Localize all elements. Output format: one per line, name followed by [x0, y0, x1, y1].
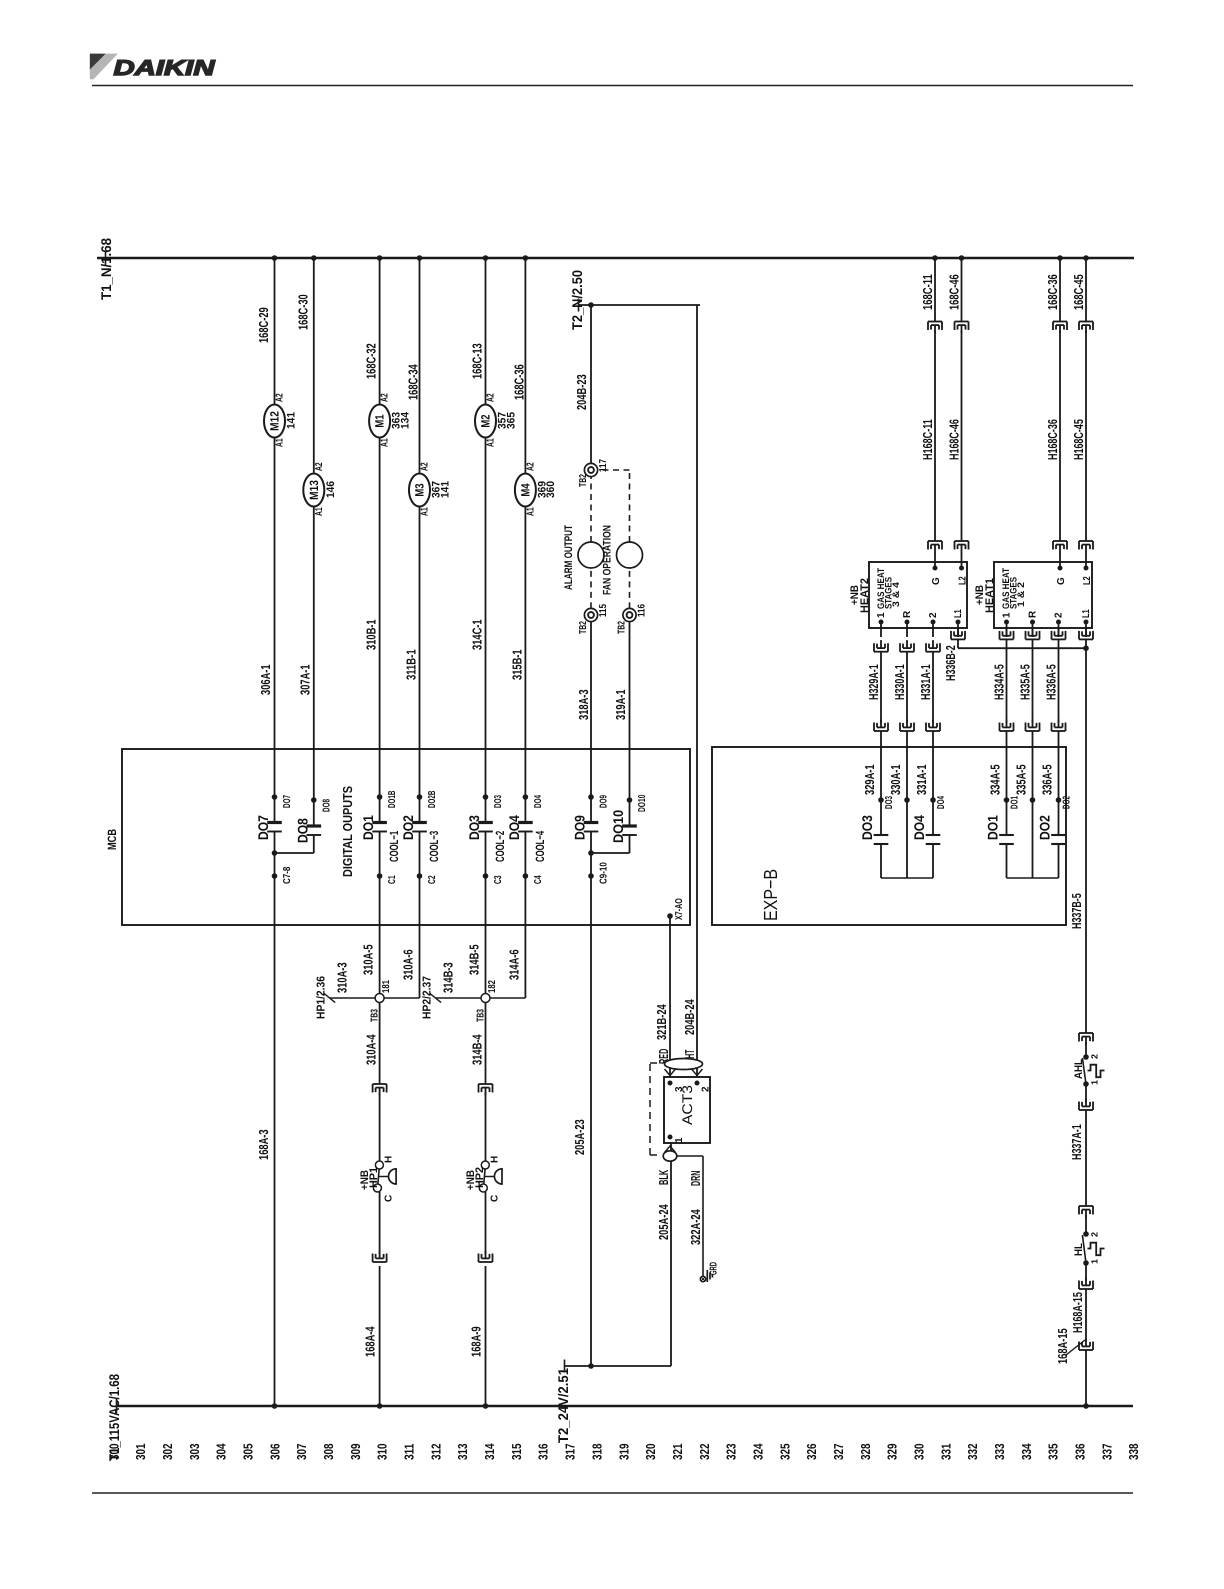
svg-text:L1: L1: [953, 609, 964, 618]
svg-text:310: 310: [375, 1444, 390, 1461]
svg-text:305: 305: [241, 1444, 256, 1461]
svg-text:DO7: DO7: [282, 795, 293, 808]
svg-text:310A-3: 310A-3: [335, 962, 350, 993]
svg-text:300: 300: [106, 1444, 121, 1461]
svg-text:330A-1: 330A-1: [888, 764, 903, 795]
svg-text:HP1/2.36: HP1/2.36: [316, 976, 328, 1019]
svg-text:334A-5: 334A-5: [988, 764, 1003, 795]
svg-text:DO10: DO10: [637, 794, 648, 812]
svg-text:DO10: DO10: [610, 810, 626, 843]
svg-text:G: G: [1056, 577, 1067, 585]
svg-text:M4: M4: [518, 483, 532, 496]
svg-text:M1: M1: [373, 414, 387, 427]
svg-text:A2: A2: [275, 393, 286, 402]
svg-text:DO8: DO8: [294, 818, 310, 843]
svg-text:168A-15: 168A-15: [1055, 1328, 1070, 1364]
svg-text:1: 1: [1002, 612, 1013, 618]
svg-text:314A-6: 314A-6: [506, 949, 521, 980]
svg-text:337: 337: [1099, 1444, 1114, 1461]
svg-text:H330A-1: H330A-1: [892, 664, 907, 700]
svg-text:C: C: [490, 1195, 501, 1202]
svg-text:DO2: DO2: [1037, 815, 1053, 840]
svg-text:M13: M13: [307, 480, 321, 500]
svg-text:309: 309: [348, 1444, 363, 1461]
svg-text:T2_N/2.50: T2_N/2.50: [569, 270, 585, 330]
svg-text:320: 320: [643, 1444, 658, 1461]
svg-text:A2: A2: [314, 462, 325, 471]
svg-text:336: 336: [1073, 1444, 1088, 1461]
svg-text:365: 365: [505, 412, 517, 429]
svg-text:G: G: [931, 577, 942, 585]
svg-text:168C-46: 168C-46: [947, 274, 962, 310]
svg-text:310B-1: 310B-1: [364, 619, 379, 650]
svg-text:C7-8: C7-8: [282, 866, 293, 884]
svg-text:X7-AO: X7-AO: [674, 898, 685, 920]
svg-text:DIGITAL OUPUTS: DIGITAL OUPUTS: [340, 786, 355, 877]
svg-text:DO1: DO1: [1010, 796, 1021, 809]
svg-text:H335A-5: H335A-5: [1018, 664, 1033, 700]
svg-text:324: 324: [750, 1443, 765, 1460]
svg-text:A2: A2: [380, 393, 391, 402]
svg-text:COOL−1: COOL−1: [387, 831, 401, 862]
svg-text:334: 334: [1019, 1443, 1034, 1460]
svg-text:DO3: DO3: [493, 795, 504, 808]
svg-text:M12: M12: [268, 411, 282, 431]
svg-text:DO8: DO8: [321, 799, 332, 812]
svg-text:H329A-1: H329A-1: [866, 664, 881, 700]
svg-text:HEAT1: HEAT1: [984, 578, 996, 613]
svg-text:H336A-5: H336A-5: [1044, 664, 1059, 700]
svg-text:TB3: TB3: [370, 1009, 381, 1022]
svg-text:DO9: DO9: [599, 795, 610, 808]
svg-text:321B-24: 321B-24: [654, 1004, 669, 1040]
svg-text:H168C-46: H168C-46: [947, 419, 962, 460]
svg-text:1: 1: [876, 612, 887, 618]
svg-text:DO3: DO3: [466, 815, 482, 840]
svg-text:DO3: DO3: [859, 815, 875, 840]
svg-text:360: 360: [545, 481, 557, 498]
svg-text:H168C-11: H168C-11: [920, 419, 935, 460]
svg-text:TB2: TB2: [617, 621, 628, 634]
svg-text:303: 303: [187, 1444, 202, 1461]
svg-text:DO1: DO1: [360, 815, 376, 840]
svg-text:R: R: [1028, 610, 1039, 618]
svg-text:H334A-5: H334A-5: [992, 664, 1007, 700]
svg-text:311: 311: [402, 1444, 417, 1461]
svg-text:326: 326: [804, 1444, 819, 1461]
svg-text:181: 181: [381, 980, 392, 993]
svg-text:168A-3: 168A-3: [256, 1129, 271, 1160]
svg-text:306: 306: [267, 1444, 282, 1461]
svg-text:L2: L2: [958, 576, 969, 585]
svg-text:322: 322: [697, 1444, 712, 1461]
svg-text:313: 313: [455, 1444, 470, 1461]
svg-text:M3: M3: [413, 483, 427, 496]
svg-text:ALARM OUTPUT: ALARM OUTPUT: [563, 525, 575, 590]
svg-text:2: 2: [1090, 1232, 1100, 1237]
svg-text:H168A-15: H168A-15: [1070, 1292, 1085, 1333]
svg-text:330: 330: [912, 1444, 927, 1461]
svg-text:335A-5: 335A-5: [1014, 764, 1029, 795]
svg-text:A1: A1: [486, 438, 497, 447]
svg-text:182: 182: [487, 980, 498, 993]
svg-text:DO4: DO4: [936, 796, 947, 809]
svg-text:328: 328: [858, 1444, 873, 1461]
svg-text:168C-29: 168C-29: [256, 307, 271, 343]
svg-text:DO1: DO1: [985, 815, 1001, 840]
svg-text:COOL−4: COOL−4: [533, 831, 547, 862]
svg-text:304: 304: [214, 1443, 229, 1460]
svg-text:C2: C2: [427, 875, 438, 884]
svg-text:333: 333: [992, 1444, 1007, 1461]
svg-text:AHL: AHL: [1073, 1059, 1085, 1079]
svg-text:DO1B: DO1B: [387, 791, 398, 808]
svg-text:331: 331: [938, 1444, 953, 1461]
svg-text:DO4: DO4: [533, 795, 544, 808]
svg-text:H336B-2: H336B-2: [943, 645, 958, 681]
svg-text:317: 317: [563, 1444, 578, 1461]
svg-text:TB2: TB2: [578, 621, 589, 634]
svg-text:168C-13: 168C-13: [470, 343, 485, 379]
svg-text:314B-5: 314B-5: [467, 944, 482, 975]
svg-text:329: 329: [885, 1444, 900, 1461]
svg-text:338: 338: [1126, 1444, 1141, 1461]
svg-text:H168C-36: H168C-36: [1045, 419, 1060, 460]
svg-text:322A-24: 322A-24: [688, 1209, 703, 1245]
svg-text:306A-1: 306A-1: [258, 664, 273, 695]
svg-text:310A-6: 310A-6: [401, 949, 416, 980]
svg-text:315: 315: [509, 1444, 524, 1461]
svg-text:323: 323: [724, 1444, 739, 1461]
svg-text:3: 3: [674, 1086, 685, 1092]
svg-text:DO2B: DO2B: [427, 791, 438, 808]
svg-text:318: 318: [589, 1444, 604, 1461]
svg-text:A2: A2: [486, 393, 497, 402]
svg-text:168C-45: 168C-45: [1071, 274, 1086, 310]
svg-text:168A-9: 168A-9: [469, 1326, 484, 1357]
svg-text:1: 1: [1090, 1080, 1100, 1085]
svg-text:315B-1: 315B-1: [509, 649, 524, 680]
svg-text:DAIKIN: DAIKIN: [114, 56, 216, 80]
svg-text:C3: C3: [493, 875, 504, 884]
svg-text:TB3: TB3: [476, 1009, 487, 1022]
svg-text:H337A-1: H337A-1: [1069, 1124, 1084, 1160]
svg-text:141: 141: [439, 481, 451, 498]
svg-text:L1: L1: [1081, 609, 1092, 618]
svg-text:GRD: GRD: [709, 1262, 720, 1275]
svg-text:HP2: HP2: [474, 1167, 486, 1188]
svg-text:EXP−B: EXP−B: [761, 869, 782, 921]
svg-text:205A-23: 205A-23: [572, 1119, 587, 1155]
svg-text:DO2: DO2: [400, 815, 416, 840]
svg-text:307: 307: [294, 1444, 309, 1461]
svg-text:A1: A1: [314, 507, 325, 516]
svg-text:A2: A2: [525, 462, 536, 471]
svg-text:115: 115: [598, 604, 609, 617]
svg-text:H331A-1: H331A-1: [918, 664, 933, 700]
svg-text:168C-36: 168C-36: [1045, 274, 1060, 310]
svg-text:311B-1: 311B-1: [404, 649, 419, 680]
svg-text:310A-5: 310A-5: [361, 944, 376, 975]
svg-text:H337B-5: H337B-5: [1069, 893, 1084, 929]
svg-text:A1: A1: [420, 507, 431, 516]
svg-text:318A-3: 318A-3: [576, 689, 591, 720]
svg-text:L2: L2: [1082, 576, 1093, 585]
svg-text:327: 327: [831, 1444, 846, 1461]
svg-text:310A-4: 310A-4: [364, 1034, 379, 1065]
svg-text:321: 321: [670, 1444, 685, 1461]
svg-text:2: 2: [1090, 1054, 1100, 1059]
svg-text:H: H: [384, 1156, 395, 1163]
svg-text:DO3: DO3: [884, 796, 895, 809]
svg-text:HEAT2: HEAT2: [859, 578, 871, 613]
svg-text:A1: A1: [275, 438, 286, 447]
svg-text:COOL−3: COOL−3: [427, 831, 441, 862]
svg-text:302: 302: [160, 1444, 175, 1461]
svg-text:204B-24: 204B-24: [682, 999, 697, 1035]
svg-text:A1: A1: [525, 507, 536, 516]
svg-text:C9-10: C9-10: [599, 862, 610, 884]
svg-text:134: 134: [399, 411, 411, 429]
svg-text:HL: HL: [1073, 1243, 1085, 1256]
svg-text:329A-1: 329A-1: [862, 764, 877, 795]
svg-text:332: 332: [965, 1444, 980, 1461]
svg-text:316: 316: [536, 1444, 551, 1461]
svg-text:336A-5: 336A-5: [1040, 764, 1055, 795]
svg-text:A2: A2: [420, 462, 431, 471]
svg-text:DO2: DO2: [1062, 796, 1073, 809]
svg-text:314B-3: 314B-3: [441, 962, 456, 993]
svg-text:319A-1: 319A-1: [613, 689, 628, 720]
svg-text:3 & 4: 3 & 4: [891, 581, 902, 607]
svg-text:314: 314: [482, 1443, 497, 1460]
svg-text:204B-23: 204B-23: [574, 374, 589, 410]
svg-text:TB2: TB2: [578, 474, 589, 487]
svg-text:141: 141: [286, 412, 298, 429]
svg-text:HP2/2.37: HP2/2.37: [422, 976, 434, 1019]
svg-text:2: 2: [928, 612, 939, 618]
svg-text:A1: A1: [380, 438, 391, 447]
svg-text:R: R: [902, 610, 913, 618]
svg-text:H168C-45: H168C-45: [1071, 419, 1086, 460]
svg-text:DO7: DO7: [255, 815, 271, 840]
svg-text:146: 146: [325, 481, 337, 498]
svg-text:168C-36: 168C-36: [511, 364, 526, 400]
svg-text:DO4: DO4: [911, 815, 927, 840]
svg-text:312: 312: [428, 1444, 443, 1461]
svg-text:168C-32: 168C-32: [364, 343, 379, 379]
svg-text:308: 308: [321, 1444, 336, 1461]
svg-text:2: 2: [701, 1086, 712, 1092]
svg-text:1 & 2: 1 & 2: [1016, 582, 1027, 607]
svg-text:168A-4: 168A-4: [363, 1326, 378, 1357]
svg-text:2: 2: [1054, 612, 1065, 618]
svg-text:COOL−2: COOL−2: [493, 831, 507, 862]
svg-text:HP1: HP1: [368, 1167, 380, 1188]
svg-text:BLK: BLK: [656, 1169, 671, 1185]
svg-text:MCB: MCB: [105, 829, 119, 850]
svg-text:T1_N/1.68: T1_N/1.68: [98, 238, 114, 300]
svg-text:301: 301: [133, 1444, 148, 1461]
svg-text:C: C: [384, 1195, 395, 1202]
svg-text:H: H: [490, 1156, 501, 1163]
svg-text:335: 335: [1046, 1444, 1061, 1461]
svg-text:DO4: DO4: [506, 815, 522, 840]
svg-text:C1: C1: [387, 875, 398, 884]
svg-text:319: 319: [616, 1444, 631, 1461]
svg-text:331A-1: 331A-1: [914, 764, 929, 795]
svg-text:1: 1: [674, 1137, 685, 1143]
svg-text:C4: C4: [533, 875, 544, 884]
svg-text:168C-11: 168C-11: [920, 274, 935, 310]
svg-text:M2: M2: [479, 414, 493, 427]
svg-text:FAN OPERATION: FAN OPERATION: [602, 525, 614, 595]
svg-text:DRN: DRN: [688, 1171, 703, 1186]
svg-text:205A-24: 205A-24: [656, 1204, 671, 1240]
svg-text:1: 1: [1090, 1259, 1100, 1264]
svg-text:168C-34: 168C-34: [406, 364, 421, 400]
svg-text:DO9: DO9: [572, 815, 588, 840]
svg-text:116: 116: [637, 604, 648, 617]
svg-text:168C-30: 168C-30: [295, 294, 310, 330]
svg-text:T2_24V/2.51: T2_24V/2.51: [555, 1368, 571, 1443]
svg-text:307A-1: 307A-1: [297, 664, 312, 695]
svg-text:325: 325: [777, 1444, 792, 1461]
svg-text:314C-1: 314C-1: [470, 619, 485, 650]
svg-text:314B-4: 314B-4: [470, 1034, 485, 1065]
